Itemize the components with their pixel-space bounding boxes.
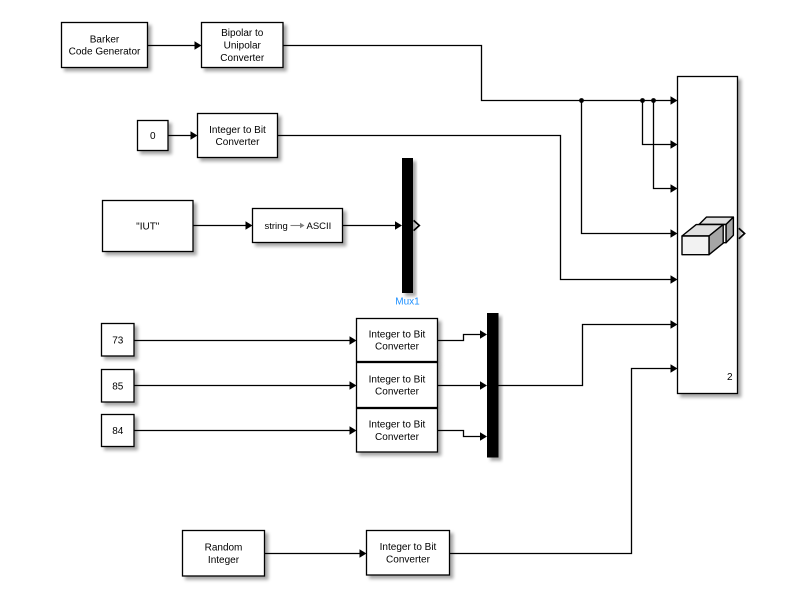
block Constant 85 — [102, 370, 135, 403]
svg-text:Mux1: Mux1 — [395, 297, 420, 308]
block string to ASCII — [253, 209, 343, 243]
mux Mux1 — [402, 158, 413, 293]
wire Mux2 to concat port 6 — [499, 320, 678, 385]
wire 73 to Integer to Bit Converter A — [134, 336, 357, 345]
wire junction B to concat port 2 — [643, 101, 678, 149]
block Constant 0 — [138, 121, 169, 151]
Matrix Concatenate icon front cube — [682, 225, 723, 255]
svg-text:Integer: Integer — [208, 555, 240, 566]
svg-text:Integer to Bit: Integer to Bit — [369, 329, 426, 340]
wire Integer to Bit Converter A to Mux2 port 1 — [438, 330, 488, 340]
svg-text:Code Generator: Code Generator — [69, 47, 141, 58]
wire 85 to Integer to Bit Converter B — [134, 381, 357, 390]
svg-text:Integer to Bit: Integer to Bit — [369, 420, 426, 431]
wire Integer to Bit Converter 4 to concat port 7 — [450, 364, 678, 553]
block Integer to Bit Converter C — [357, 409, 438, 453]
svg-text:Converter: Converter — [375, 387, 420, 398]
svg-text:Integer to Bit: Integer to Bit — [369, 374, 426, 385]
svg-text:85: 85 — [112, 381, 124, 392]
svg-text:string: string — [265, 221, 288, 232]
block Constant 84 — [102, 415, 135, 447]
svg-text:73: 73 — [112, 335, 124, 346]
wire 0 to Integer to Bit Converter 1 — [168, 131, 198, 140]
mux Mux2 — [487, 313, 499, 458]
svg-text:Barker: Barker — [90, 34, 120, 45]
wire Bipolar to concat port 1 — [283, 46, 678, 105]
Matrix Concatenate icon back cube — [699, 217, 733, 243]
svg-text:84: 84 — [112, 426, 124, 437]
svg-text:Integer to Bit: Integer to Bit — [380, 542, 437, 553]
block Integer to Bit Converter B — [357, 363, 438, 408]
svg-text:Converter: Converter — [220, 53, 265, 64]
wire 84 to Integer to Bit Converter C — [134, 426, 357, 435]
svg-text:Bipolar to: Bipolar to — [221, 28, 264, 39]
junction dot B — [640, 98, 645, 103]
svg-text:Integer to Bit: Integer to Bit — [209, 125, 266, 136]
svg-text:Converter: Converter — [386, 554, 431, 565]
svg-text:Random: Random — [205, 543, 243, 554]
Mux1 output port chevron — [414, 220, 420, 230]
block Matrix Concatenate — [678, 77, 738, 394]
wire Barker to Bipolar — [148, 41, 202, 50]
label 2 on Matrix Concatenate — [727, 372, 733, 383]
wire IUT to string-to-ASCII — [193, 221, 253, 230]
block Bipolar to Unipolar Converter — [202, 23, 284, 68]
svg-text:Converter: Converter — [375, 432, 420, 443]
svg-text:Converter: Converter — [216, 137, 261, 148]
svg-text:0: 0 — [150, 131, 156, 142]
svg-text:"IUT": "IUT" — [136, 222, 160, 233]
svg-text:2: 2 — [727, 372, 733, 383]
label Mux1 — [395, 297, 420, 308]
wire junction C to concat port 3 — [654, 101, 678, 193]
block Constant "IUT" — [103, 201, 194, 252]
block Constant 73 — [102, 324, 135, 357]
wire Integer to Bit Converter C to Mux2 port 3 — [438, 431, 488, 441]
block Random Integer — [183, 531, 265, 577]
wire junction A to concat port 4 — [582, 101, 678, 238]
wire Integer to Bit Converter 1 to concat port 5 — [278, 136, 678, 284]
block Integer to Bit Converter 1 — [198, 114, 278, 158]
block Integer to Bit Converter A — [357, 319, 438, 362]
junction dot C — [651, 98, 656, 103]
block Integer to Bit Converter 4 — [367, 531, 450, 576]
svg-text:ASCII: ASCII — [307, 221, 332, 232]
svg-text:Unipolar: Unipolar — [224, 41, 262, 52]
svg-text:Converter: Converter — [375, 342, 420, 353]
Matrix Concatenate output port chevron — [739, 228, 745, 239]
wire Integer to Bit Converter B to Mux2 port 2 — [438, 381, 488, 390]
wire Random Integer to Integer to Bit Converter 4 — [265, 549, 367, 558]
junction dot A — [579, 98, 584, 103]
block Barker Code Generator — [62, 23, 148, 68]
wire string-to-ASCII to Mux1 — [343, 221, 403, 230]
